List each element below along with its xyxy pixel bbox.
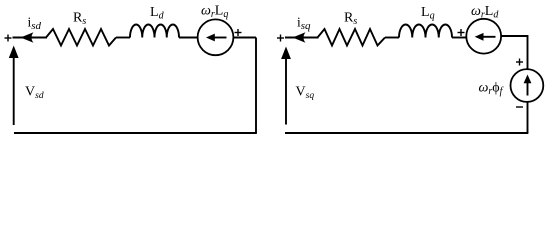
voltage arrow Vsd	[9, 46, 19, 126]
wire top-left d-axis	[13, 37, 48, 39]
voltage arrow Vsq	[281, 47, 291, 125]
wire between Rs and Lq	[385, 37, 399, 39]
current arrow i_sd	[21, 32, 34, 43]
terminal + (d-axis top left)	[5, 35, 12, 42]
wire bottom q-axis	[285, 132, 528, 134]
dependent source U2 (speed voltage ωr·Ld) circle	[466, 19, 501, 54]
resistor Rs (q-axis)	[318, 29, 386, 46]
arrow inside source U3 (points up)	[524, 75, 532, 96]
wire between Lq and source	[452, 37, 467, 39]
wire right side d-axis (vertical)	[255, 38, 257, 134]
terminal + (q-axis top left)	[277, 35, 284, 42]
wire top-left q-axis	[285, 37, 319, 39]
inductor Lq	[399, 24, 452, 37]
wire bottom d-axis	[14, 132, 257, 134]
+ polarity above source U3	[516, 59, 523, 66]
arrow inside source U2 (points left)	[475, 33, 496, 41]
wire source U1 to top-right corner	[233, 37, 256, 39]
arrow inside source U1 (points left)	[206, 34, 227, 42]
back-EMF source U3 (ωr·φf) circle	[511, 69, 544, 102]
+ polarity left of source U2	[458, 29, 465, 36]
wire right side q-axis lower (vertical)	[527, 102, 529, 133]
wire between Rs and Ld	[116, 37, 130, 39]
wire right side q-axis upper (vertical)	[527, 35, 529, 70]
resistor Rs (d-axis)	[46, 29, 116, 46]
current arrow i_sq	[293, 32, 306, 43]
dependent source U1 (speed voltage ωr·Lq) circle	[198, 19, 234, 55]
wire between Ld and source	[179, 37, 199, 39]
inductor Ld	[130, 24, 179, 37]
- polarity below source U3	[516, 106, 523, 108]
wire source U2 to top-right corner	[501, 35, 528, 37]
+ polarity right of source U1	[235, 29, 242, 36]
